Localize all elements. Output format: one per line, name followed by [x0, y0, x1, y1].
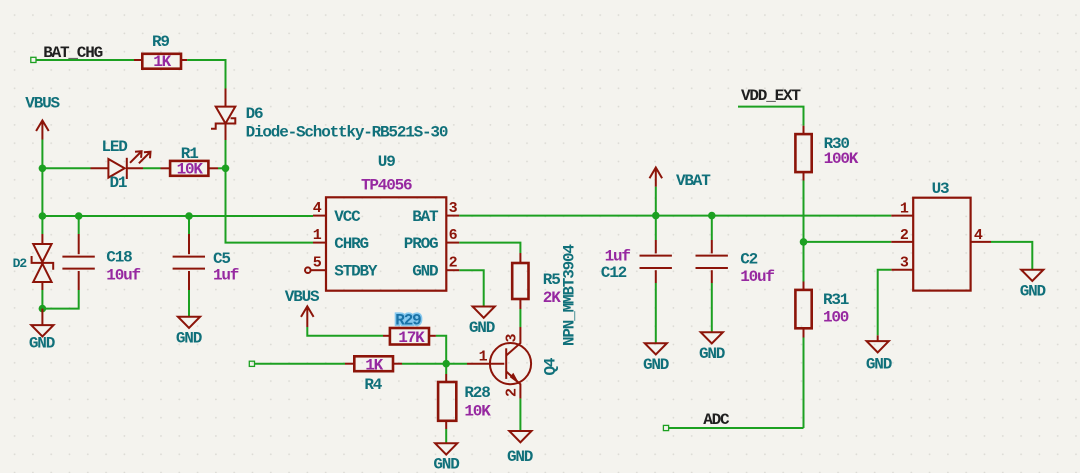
- svg-text:5: 5: [313, 254, 322, 271]
- power symbol VBUS (top-left): [25, 95, 60, 140]
- wire R5 to Q4 collector: [519, 309, 521, 327]
- svg-text:3: 3: [449, 200, 458, 217]
- ground below C12: [643, 343, 669, 374]
- svg-text:1: 1: [900, 201, 909, 218]
- svg-text:2: 2: [504, 388, 521, 397]
- svg-text:2: 2: [900, 227, 909, 244]
- wire main bus left: [42, 215, 313, 217]
- svg-text:10uf: 10uf: [740, 268, 774, 286]
- ground below C5: [176, 317, 202, 348]
- svg-text:GND: GND: [643, 356, 669, 374]
- pin 3 of U3: [891, 254, 913, 271]
- capacitor C18: [62, 216, 132, 290]
- label BAT_CHG: [31, 44, 103, 63]
- wire U3 pin4 to gnd: [991, 242, 1032, 270]
- wire D2 bottom: [41, 290, 43, 309]
- wire C2 to gnd: [711, 283, 713, 332]
- resistor R5: [512, 253, 560, 309]
- diode D2 (TVS): [13, 216, 54, 290]
- pin 3 BAT of U9: [412, 200, 459, 226]
- svg-text:VCC: VCC: [334, 208, 361, 226]
- svg-text:VBUS: VBUS: [25, 95, 60, 113]
- wire R28 to gnd: [445, 429, 447, 443]
- svg-text:BAT: BAT: [412, 208, 439, 226]
- svg-text:TP4056: TP4056: [361, 176, 412, 194]
- svg-text:VDD_EXT: VDD_EXT: [741, 87, 801, 105]
- resistor R30: [795, 126, 849, 181]
- pin 1 CHRG of U9: [313, 227, 369, 253]
- wire ADC: [669, 427, 804, 429]
- svg-text:VBAT: VBAT: [676, 172, 711, 190]
- resistor R28: [438, 364, 490, 429]
- svg-text:GND: GND: [699, 345, 725, 363]
- op-amp U3 body: [913, 180, 970, 290]
- junction bus at C2: [708, 212, 716, 220]
- resistor R9: [134, 33, 187, 69]
- svg-text:GND: GND: [507, 448, 533, 466]
- wire D6 down to CHRG: [226, 140, 314, 243]
- svg-text:10uf: 10uf: [106, 267, 140, 285]
- svg-text:STDBY: STDBY: [334, 263, 378, 281]
- svg-text:U3: U3: [932, 180, 949, 198]
- svg-text:4: 4: [974, 227, 983, 244]
- pin 2 GND of U9: [412, 254, 459, 280]
- svg-text:D6: D6: [246, 105, 263, 123]
- wire label to R4: [255, 363, 346, 365]
- wire VBUS2 to R29: [307, 327, 383, 336]
- svg-text:GND: GND: [29, 335, 55, 353]
- power symbol VBAT: [650, 168, 712, 191]
- svg-text:6: 6: [449, 227, 458, 244]
- svg-text:2: 2: [449, 254, 458, 271]
- svg-text:R28: R28: [464, 384, 490, 402]
- svg-text:1uf: 1uf: [213, 267, 239, 285]
- svg-text:1K: 1K: [365, 356, 383, 374]
- resistor R4: [345, 356, 402, 394]
- svg-text:100K: 100K: [824, 150, 859, 168]
- wire LED to R1: [143, 167, 161, 169]
- wire R30 down through bus to R31: [803, 181, 805, 282]
- svg-text:1uf: 1uf: [605, 247, 631, 265]
- ground at U3 pin4: [1020, 270, 1046, 301]
- svg-text:3: 3: [900, 254, 909, 271]
- junction at VBUS/LED: [39, 165, 47, 173]
- wire U9 GND pin down: [459, 270, 483, 306]
- svg-text:R5: R5: [543, 271, 560, 289]
- svg-text:GND: GND: [469, 319, 495, 337]
- capacitor C2: [696, 216, 758, 283]
- wire junction to U3 pin2: [804, 241, 892, 243]
- svg-text:NPN_MMBT3904: NPN_MMBT3904: [560, 244, 578, 346]
- svg-text:3: 3: [504, 334, 521, 343]
- svg-text:GND: GND: [1020, 282, 1046, 300]
- wire PROG to R5: [459, 243, 520, 253]
- svg-text:R31: R31: [823, 291, 849, 309]
- junction bus at VBUS: [39, 212, 47, 220]
- junction R30/R31/pin2: [800, 238, 808, 246]
- pin 1 of U3: [891, 201, 913, 218]
- wire C12 to gnd: [655, 283, 657, 343]
- svg-text:PROG: PROG: [404, 235, 438, 253]
- wire U3 pin3 to gnd: [878, 270, 892, 336]
- svg-text:GND: GND: [433, 456, 459, 473]
- svg-text:R9: R9: [152, 33, 169, 51]
- LED D1: [91, 138, 151, 192]
- svg-text:D2: D2: [13, 256, 28, 271]
- wire R29 to base junction: [436, 336, 446, 364]
- wire VDD_EXT to R30: [738, 107, 804, 126]
- wire R1 to junction: [218, 167, 226, 169]
- ground below U9: [469, 307, 495, 338]
- ground below C2: [699, 332, 725, 363]
- svg-text:C2: C2: [740, 251, 757, 269]
- pin 5 STDBY of U9: [305, 254, 378, 280]
- resistor R31: [795, 282, 848, 338]
- svg-text:D1: D1: [110, 174, 127, 192]
- svg-text:10K: 10K: [177, 161, 204, 179]
- wire R31 down to ADC: [803, 338, 805, 429]
- svg-text:CHRG: CHRG: [334, 235, 368, 253]
- svg-text:Q4: Q4: [541, 357, 559, 375]
- svg-text:LED: LED: [102, 138, 128, 156]
- svg-text:Diode-Schottky-RB521S-30: Diode-Schottky-RB521S-30: [246, 124, 448, 142]
- svg-text:C5: C5: [213, 250, 230, 268]
- svg-text:R4: R4: [364, 376, 382, 394]
- ground below Q4: [507, 431, 533, 466]
- svg-text:ADC: ADC: [703, 411, 730, 429]
- svg-text:C18: C18: [106, 248, 132, 266]
- svg-text:GND: GND: [866, 355, 892, 373]
- svg-text:10K: 10K: [464, 402, 491, 420]
- wire bus BAT to U3: [459, 215, 891, 217]
- wire R4 to Q4 base: [402, 363, 467, 365]
- capacitor C12: [601, 216, 672, 283]
- ground below R28: [433, 443, 459, 473]
- resistor R1: [161, 145, 219, 176]
- label input to R4: [249, 361, 254, 366]
- svg-text:R29: R29: [395, 312, 421, 330]
- svg-text:GND: GND: [412, 263, 438, 281]
- wire Q4 emitter to gnd: [519, 399, 521, 431]
- ground below D2: [29, 309, 55, 353]
- svg-text:1: 1: [313, 227, 322, 244]
- junction bus at C5: [185, 212, 193, 220]
- ground below U3 pin3: [866, 335, 892, 373]
- wire VBUS down to bus: [41, 140, 43, 217]
- wire R9 to D6 corner: [187, 60, 225, 89]
- power symbol VBUS (near R29): [285, 288, 320, 327]
- svg-text:GND: GND: [176, 330, 202, 348]
- wire C5 bottom: [188, 290, 190, 317]
- svg-text:C12: C12: [601, 264, 627, 282]
- wire C18 bottom to GND junction: [42, 290, 78, 309]
- svg-text:U9: U9: [378, 153, 395, 171]
- junction GND D2/C18: [39, 305, 47, 313]
- junction bus at C12: [652, 212, 660, 220]
- svg-text:2K: 2K: [543, 289, 561, 307]
- svg-text:1: 1: [479, 349, 488, 366]
- svg-text:17K: 17K: [398, 329, 425, 347]
- op-amp U9 (TP4056 body): [326, 153, 446, 291]
- svg-text:100: 100: [823, 308, 849, 326]
- resistor R29 (highlighted): [383, 312, 436, 345]
- diode D6 (Schottky): [211, 89, 263, 141]
- wire VBAT to bus: [655, 187, 657, 216]
- wire VBUS to LED: [42, 167, 90, 169]
- label ADC: [663, 411, 730, 430]
- capacitor C5: [173, 216, 231, 290]
- junction R29/R28/base: [442, 360, 450, 368]
- pin 2 of U3: [891, 227, 913, 244]
- pin 6 PROG of U9: [404, 227, 460, 253]
- svg-text:VBUS: VBUS: [285, 288, 320, 306]
- junction D6/R1: [222, 165, 230, 173]
- pin 4 of U3: [971, 227, 991, 244]
- svg-text:4: 4: [313, 200, 322, 217]
- svg-text:1K: 1K: [153, 53, 171, 71]
- wire BAT_CHG to R9: [36, 59, 134, 61]
- pin 4 VCC of U9: [313, 200, 361, 226]
- transistor Q4: [467, 327, 559, 399]
- junction bus at C18: [75, 212, 83, 220]
